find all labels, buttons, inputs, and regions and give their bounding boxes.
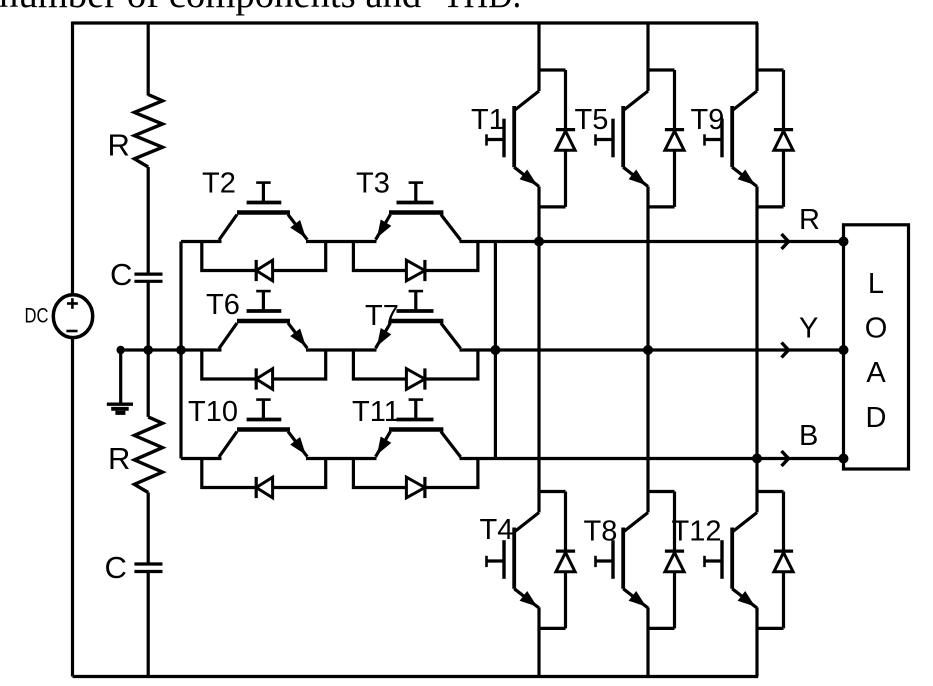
- node midpoint at left bus: [176, 345, 186, 355]
- svg-text:T1: T1: [471, 104, 505, 136]
- wire T1 diode branch: [539, 68, 566, 71]
- capacitor C lower: [134, 562, 162, 565]
- node rail R at T1 leg: [534, 237, 544, 247]
- wire T3 diode loop: [353, 242, 478, 271]
- wire leg T5/T8 column: [646, 23, 649, 677]
- node rail Y at LOAD: [839, 345, 849, 355]
- wire T12 diode branch: [757, 490, 784, 493]
- LOAD box: [844, 225, 909, 469]
- node rail B at T9 leg: [752, 454, 762, 464]
- node rail R at LOAD: [839, 237, 849, 247]
- svg-text:O: O: [865, 313, 888, 345]
- resistor R lower: [134, 417, 162, 493]
- diode D12b freewheel: [774, 553, 793, 572]
- wire leg T9/T12 column: [755, 23, 758, 677]
- arrow phase Y: [782, 343, 789, 358]
- diode D11a antiparallel: [406, 477, 425, 498]
- transistor T3: [376, 215, 391, 240]
- diode D8b freewheel: [665, 553, 684, 572]
- wire chain R2-C2: [147, 493, 150, 565]
- wire T9 diode branch: [757, 68, 784, 71]
- wire T2 diode loop: [202, 242, 326, 271]
- node rail Y at T5 leg: [643, 345, 653, 355]
- wire chain top: [147, 23, 150, 96]
- transistor T4: [514, 513, 539, 533]
- svg-text:THD.: THD.: [443, 0, 522, 16]
- svg-text:R: R: [799, 204, 820, 236]
- wire T11 diode loop: [353, 459, 478, 488]
- wire T5 diode branch: [648, 68, 675, 71]
- svg-text:T11: T11: [352, 396, 400, 428]
- svg-text:T4: T4: [480, 514, 514, 546]
- transistor T10: [219, 432, 237, 458]
- diode D6a antiparallel: [256, 369, 272, 390]
- wire phase rail Y: [121, 348, 222, 351]
- wire chain node-R2: [147, 350, 150, 417]
- svg-text:A: A: [866, 357, 886, 389]
- wire left DC branch lower: [71, 338, 74, 677]
- node rail Y at mid bus: [490, 345, 500, 355]
- wire left bus of bidirectional stage: [179, 242, 182, 459]
- svg-text:Y: Y: [799, 312, 818, 344]
- wire T6 diode loop: [202, 350, 326, 379]
- svg-text:T7: T7: [365, 300, 399, 332]
- wire T10 diode loop: [202, 459, 326, 488]
- wire phase rail B: [181, 457, 222, 460]
- transistor T12: [732, 513, 757, 533]
- wire left DC branch upper: [71, 22, 74, 296]
- ground: [119, 350, 122, 403]
- svg-text:T5: T5: [575, 104, 609, 136]
- svg-text:R: R: [108, 128, 130, 163]
- node rail B at LOAD: [839, 454, 849, 464]
- svg-text:C: C: [105, 550, 127, 585]
- DC source: [53, 295, 92, 338]
- node midpoint at chain: [143, 345, 153, 355]
- transistor T6: [219, 323, 237, 349]
- transistor T9: [732, 91, 757, 111]
- arrow phase R: [782, 234, 789, 249]
- wire T7 diode loop: [353, 350, 478, 379]
- svg-text:T9: T9: [691, 104, 725, 136]
- diode D10a antiparallel: [256, 477, 272, 498]
- diode D1b freewheel: [556, 131, 575, 150]
- resistor R upper: [134, 95, 162, 168]
- svg-text:D: D: [866, 402, 887, 434]
- capacitor C upper: [134, 273, 162, 276]
- arrow phase B: [782, 451, 789, 466]
- svg-text:T6: T6: [206, 289, 240, 321]
- wire T8 diode branch: [648, 490, 675, 493]
- wire chain C2-bottom: [147, 572, 150, 677]
- transistor T1: [514, 91, 539, 111]
- wire phase rail R: [181, 240, 222, 243]
- diode D4b freewheel: [556, 553, 575, 572]
- wire chain C1-node: [147, 281, 150, 350]
- wire bottom DC- bus: [73, 675, 759, 678]
- wire chain R1-C1: [147, 167, 150, 274]
- svg-text:B: B: [799, 420, 818, 452]
- diode D9b freewheel: [774, 131, 793, 150]
- svg-text:DC: DC: [25, 304, 49, 327]
- diode D3a antiparallel: [406, 260, 425, 281]
- wire top DC+ bus: [73, 21, 759, 24]
- svg-text:T8: T8: [584, 516, 618, 548]
- diode D5b freewheel: [665, 131, 684, 150]
- wire T4 diode branch: [539, 490, 566, 493]
- transistor T7: [376, 323, 391, 348]
- transistor T11: [376, 432, 391, 457]
- svg-text:C: C: [110, 257, 132, 292]
- svg-text:T12: T12: [672, 516, 722, 548]
- svg-text:T10: T10: [188, 396, 238, 428]
- diode D2a antiparallel: [256, 260, 272, 281]
- node DC midpoint at ground tap: [117, 346, 125, 354]
- diode D7a antiparallel: [406, 369, 425, 390]
- svg-text:number of components and: number of components and: [0, 0, 421, 16]
- svg-text:T2: T2: [202, 168, 236, 200]
- transistor T5: [623, 91, 648, 111]
- svg-text:R: R: [108, 441, 130, 476]
- svg-text:L: L: [868, 268, 884, 300]
- svg-text:T3: T3: [356, 168, 390, 200]
- transistor T8: [623, 513, 648, 533]
- wire mid bus of bidirectional stage: [494, 242, 497, 459]
- wire leg T1/T4 column: [537, 23, 540, 677]
- transistor T2: [219, 215, 237, 241]
